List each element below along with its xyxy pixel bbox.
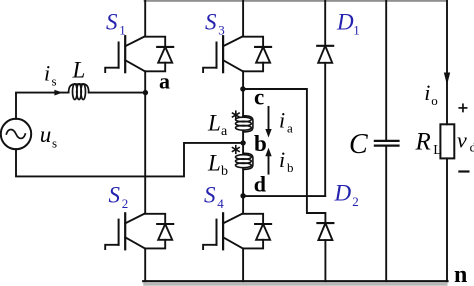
svg-text:o: o	[431, 93, 438, 108]
wire source top to node a	[16, 93, 145, 119]
inductor La coupled winding	[236, 116, 253, 132]
wire D1 anode down to node d line	[324, 63, 326, 196]
svg-text:i: i	[279, 107, 285, 132]
wire node d down to S4 collector	[242, 196, 244, 214]
current arrow io	[444, 73, 450, 86]
wire top bus to diode D1	[324, 1, 326, 46]
wire top bus to capacitor C	[385, 1, 387, 141]
diode D2	[317, 223, 333, 240]
svg-text:1: 1	[119, 23, 126, 38]
wire top bus to load with io arrow	[446, 1, 448, 125]
wire node a down to S2 collector	[144, 93, 146, 214]
svg-text:u: u	[40, 122, 52, 147]
wire S2 emitter to bottom bus	[144, 248, 146, 281]
svg-text:s: s	[52, 73, 57, 88]
svg-text:S: S	[204, 183, 216, 208]
svg-text:1: 1	[353, 23, 360, 38]
svg-text:s: s	[52, 135, 57, 150]
wire node d to D1 anode	[243, 195, 325, 197]
svg-text:D: D	[334, 181, 352, 206]
diode of S1	[145, 37, 173, 72]
svg-text:2: 2	[122, 196, 129, 211]
transistor S3 IGBT	[203, 36, 243, 72]
wire leg2 top bus to S3 collector	[242, 1, 244, 37]
svg-text:a: a	[287, 121, 293, 136]
diode of S3	[243, 37, 271, 72]
AC source us	[1, 119, 31, 149]
svg-text:S: S	[109, 183, 121, 208]
arrow is on source wire	[54, 90, 62, 96]
svg-text:i: i	[424, 80, 430, 105]
svg-text:S: S	[106, 9, 118, 34]
svg-text:b: b	[254, 131, 267, 156]
wire D2 anode to bottom bus	[324, 240, 326, 281]
inductor L	[69, 84, 89, 93]
node d	[240, 193, 245, 198]
wire bottom bus gray shadow	[143, 283, 447, 286]
diode of S2	[145, 214, 173, 249]
wire node c to D2 cathode jog	[243, 89, 325, 223]
wire leg1 top bus to S1 collector	[144, 1, 146, 37]
svg-text:a: a	[221, 124, 228, 139]
svg-text:2: 2	[352, 194, 359, 209]
svg-text:d: d	[470, 140, 474, 155]
node c	[240, 86, 245, 91]
transistor S2 IGBT	[105, 213, 145, 249]
wire S3 emitter to node c	[242, 71, 244, 89]
svg-text:S: S	[205, 9, 217, 34]
current arrow ib	[268, 156, 270, 174]
transistor S1 IGBT	[105, 36, 145, 72]
wire top DC bus	[144, 0, 448, 2]
wire node c to coupled inductor La	[242, 89, 244, 116]
wire La to node b	[242, 132, 244, 143]
svg-text:a: a	[159, 69, 170, 94]
capacitor C	[375, 141, 399, 146]
svg-text:n: n	[454, 262, 467, 286]
wire RL to bottom bus node n	[446, 158, 448, 281]
svg-text:C: C	[349, 129, 368, 160]
svg-text:i: i	[279, 147, 285, 172]
svg-text:R: R	[415, 129, 431, 156]
svg-text:4: 4	[217, 196, 224, 211]
svg-text:v: v	[457, 127, 467, 152]
svg-text:d: d	[254, 172, 266, 197]
svg-text:L: L	[433, 143, 442, 158]
current arrow ia	[268, 107, 270, 130]
svg-text:D: D	[336, 9, 354, 34]
svg-text:L: L	[72, 58, 86, 83]
svg-text:i: i	[44, 61, 50, 86]
polarity star of Lb	[233, 146, 240, 154]
resistor RL	[440, 124, 454, 158]
wire bottom DC bus	[143, 280, 447, 282]
plus sign of vd	[459, 104, 466, 111]
svg-text:b: b	[221, 164, 228, 179]
wire S1 emitter to node a	[144, 71, 146, 92]
svg-text:L: L	[207, 110, 221, 135]
svg-text:b: b	[287, 160, 294, 175]
svg-text:3: 3	[218, 23, 225, 38]
inductor Lb coupled winding	[236, 153, 253, 169]
diode of S4	[243, 214, 271, 249]
wire S4 emitter to bottom bus	[242, 248, 244, 281]
polarity star of La	[233, 111, 240, 119]
diode D1	[317, 46, 333, 63]
node a	[143, 90, 148, 95]
svg-text:c: c	[254, 85, 264, 110]
minus sign of vd	[459, 170, 468, 172]
wire Lb to node d	[242, 169, 244, 195]
svg-text:L: L	[207, 150, 221, 175]
wire capacitor C to bottom bus	[385, 146, 387, 282]
transistor S4 IGBT	[203, 213, 243, 249]
node b	[240, 140, 245, 145]
wire source bottom loop to node b	[16, 143, 243, 177]
wire node b to coupled inductor Lb	[242, 143, 244, 153]
